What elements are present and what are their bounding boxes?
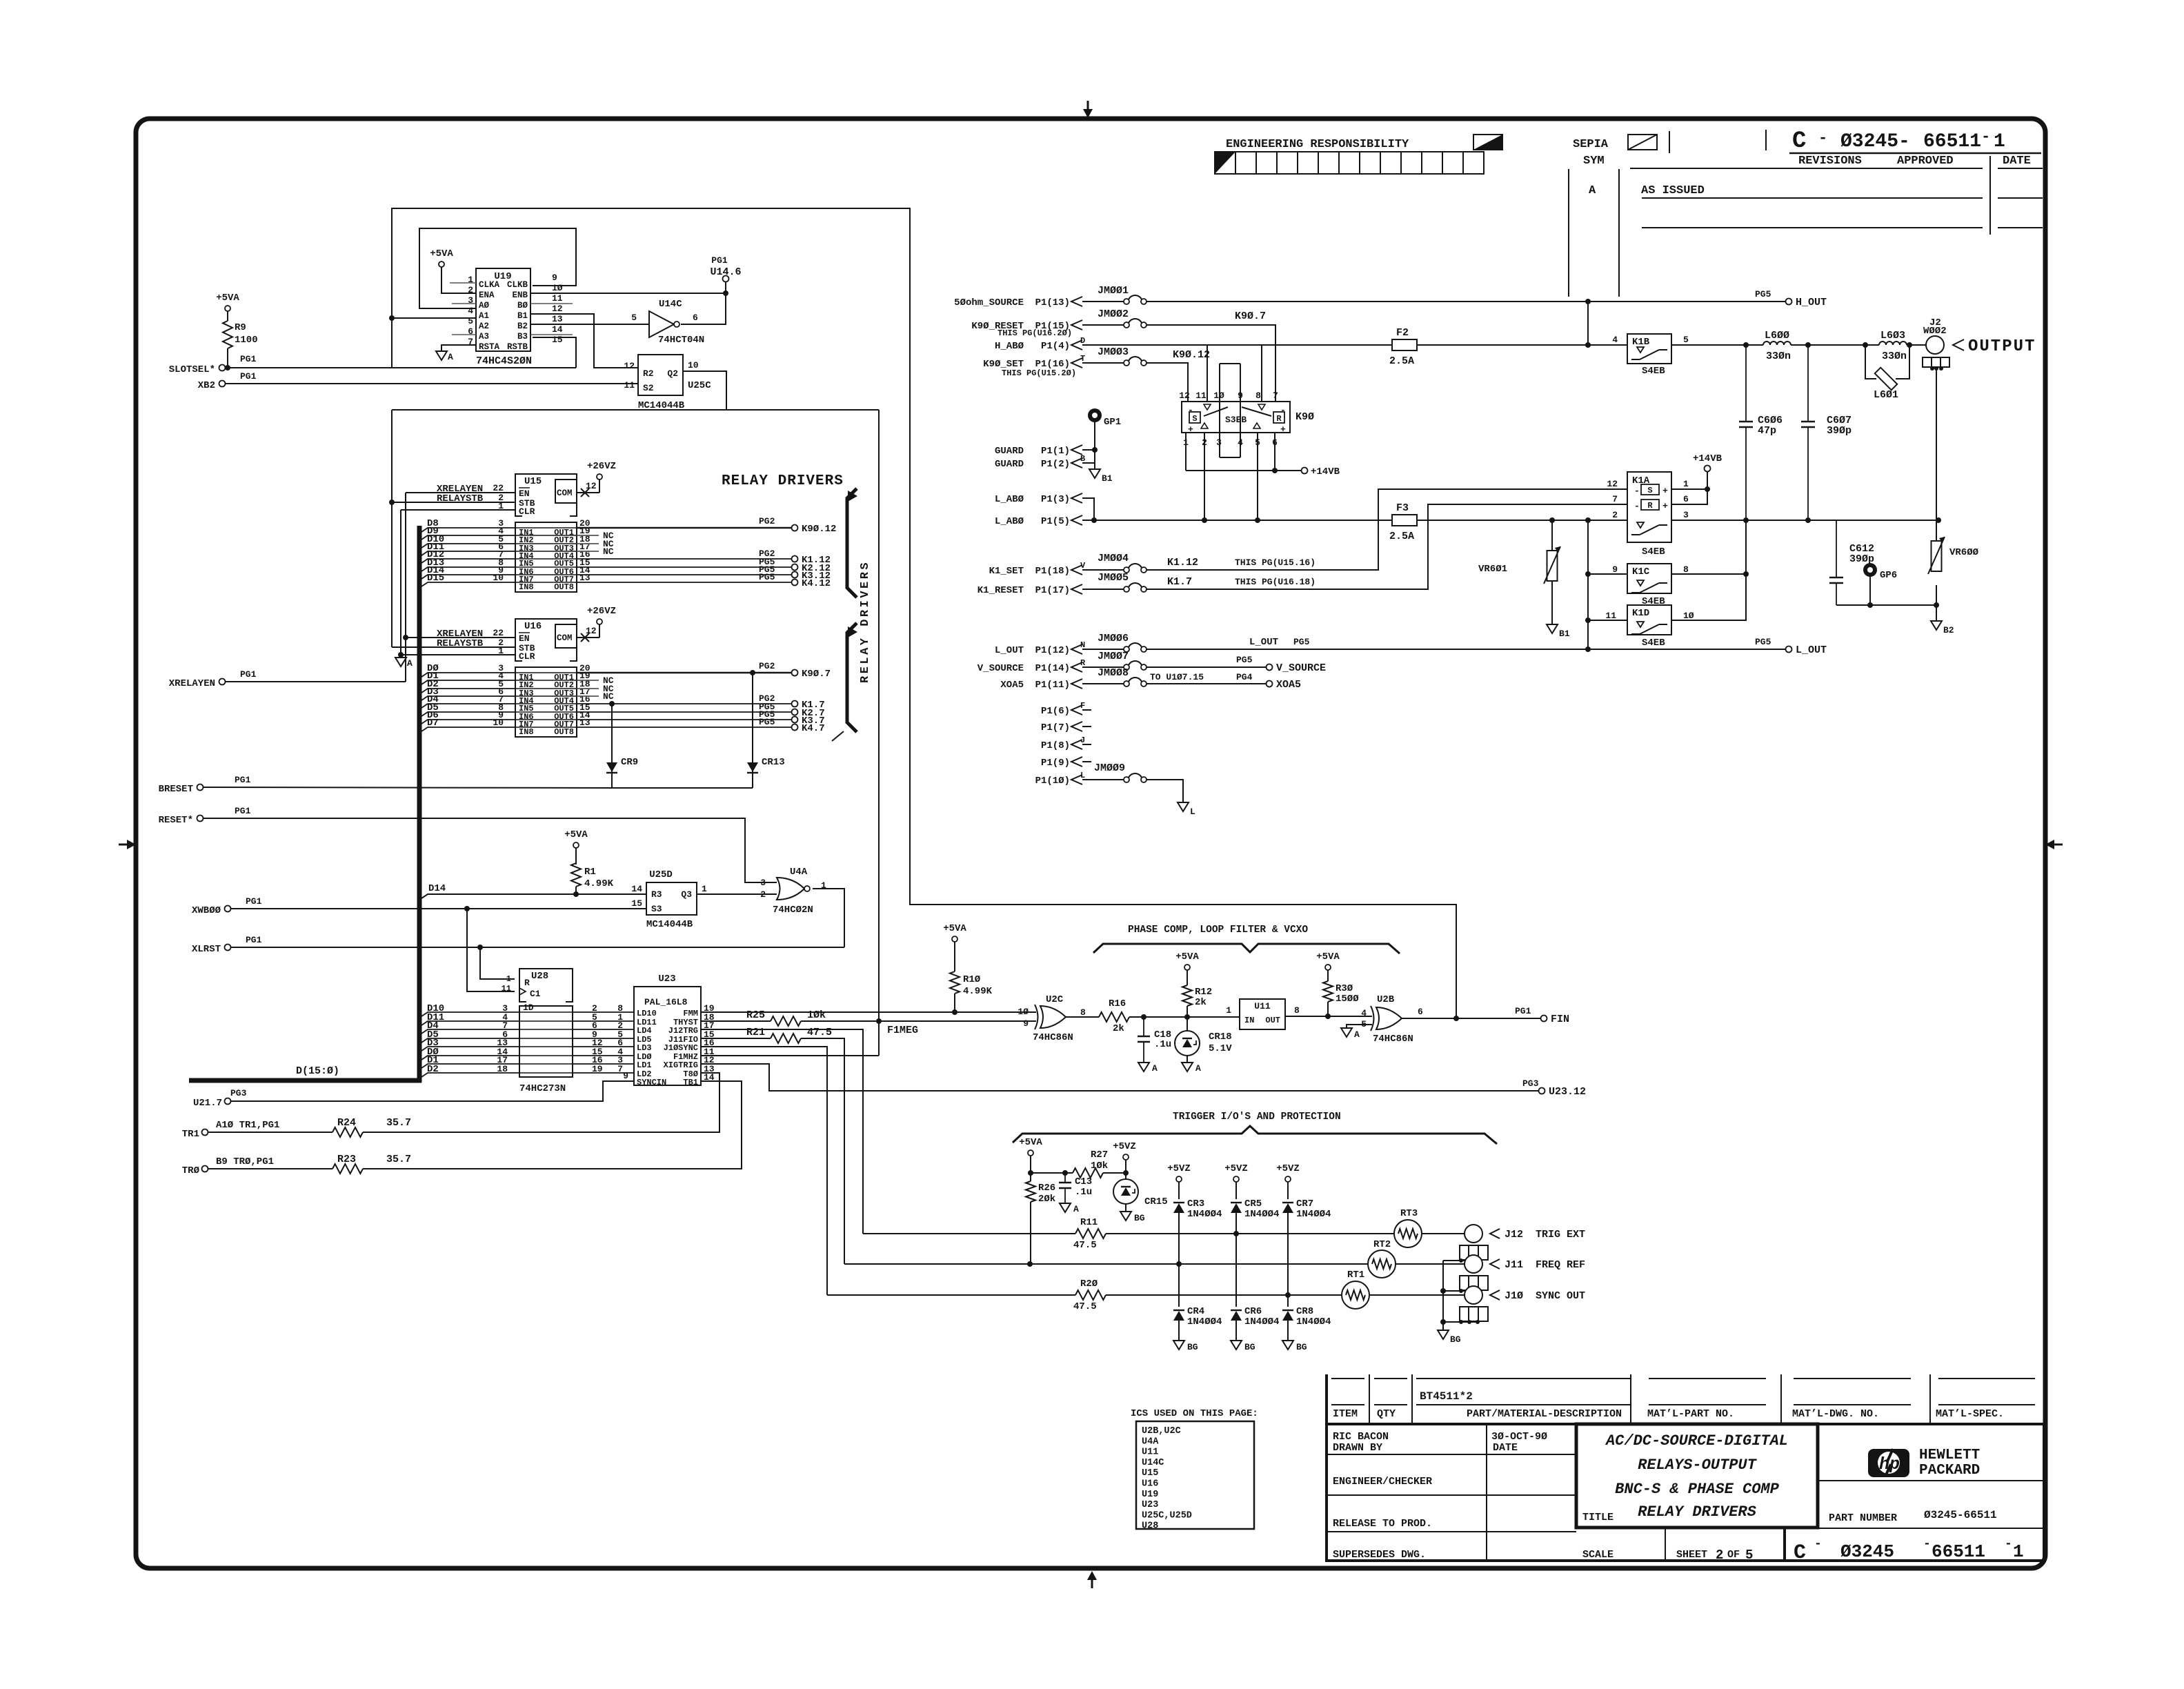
svg-text:CR15: CR15 xyxy=(1144,1196,1168,1207)
ground B1 at VR601 xyxy=(1547,624,1558,633)
wire U16 OUT6 line xyxy=(577,711,792,713)
svg-text:SYM: SYM xyxy=(1583,155,1605,168)
svg-text:R1Ø: R1Ø xyxy=(963,974,981,985)
svg-text:U16: U16 xyxy=(524,621,542,632)
svg-text:PAL_16L8: PAL_16L8 xyxy=(644,997,688,1007)
terminal L_OUT xyxy=(1786,646,1792,653)
svg-text:D(15:Ø): D(15:Ø) xyxy=(296,1065,339,1077)
wire U28 Q1 to U23 LD row xyxy=(573,1020,634,1022)
svg-text:R12: R12 xyxy=(1195,987,1212,998)
svg-text:4.99K: 4.99K xyxy=(584,878,614,889)
svg-text:XRELAYEN: XRELAYEN xyxy=(169,678,215,689)
svg-text:PG3: PG3 xyxy=(230,1088,247,1098)
svg-text:C: C xyxy=(1794,1541,1806,1565)
svg-text:7: 7 xyxy=(1273,391,1278,401)
svg-text:JMØØ5: JMØØ5 xyxy=(1098,572,1129,584)
wire XRELAYEN vertical xyxy=(405,493,406,682)
wire K1D pin10 riser xyxy=(1671,574,1746,620)
ground BG at BNC shields xyxy=(1438,1330,1449,1339)
revisions table SYM column xyxy=(1568,169,1569,297)
svg-text:TR1: TR1 xyxy=(182,1129,199,1140)
ground B2 xyxy=(1936,605,1937,621)
svg-text:66511: 66511 xyxy=(1923,131,1981,152)
terminal FIN PG1 xyxy=(1541,1016,1547,1022)
svg-text:BG: BG xyxy=(1244,1342,1255,1352)
BNC J11 shield xyxy=(1460,1276,1488,1290)
diode CR4 1N4004 xyxy=(1173,1311,1184,1321)
svg-text:QTY: QTY xyxy=(1377,1408,1396,1420)
svg-text:V_SOURCE: V_SOURCE xyxy=(977,663,1024,674)
svg-text:.1u: .1u xyxy=(1154,1039,1171,1050)
svg-text:12: 12 xyxy=(624,361,635,371)
svg-text:ENB: ENB xyxy=(512,290,528,300)
svg-text:V: V xyxy=(1080,561,1086,571)
svg-text:Q3: Q3 xyxy=(681,889,692,900)
svg-text:U19: U19 xyxy=(1142,1490,1158,1500)
svg-text:K9Ø.7: K9Ø.7 xyxy=(1235,310,1266,322)
svg-text:+5VA: +5VA xyxy=(1019,1137,1042,1148)
svg-text:NC: NC xyxy=(603,691,614,702)
ground A at U19 xyxy=(436,351,447,360)
svg-text:+5VA: +5VA xyxy=(1316,951,1340,962)
wire F2 to K1B xyxy=(1417,344,1627,346)
wire GUARD P1(2) xyxy=(1082,462,1095,464)
svg-text:C13: C13 xyxy=(1075,1176,1092,1187)
svg-text:7: 7 xyxy=(617,1064,623,1074)
svg-text:U23.12: U23.12 xyxy=(1549,1086,1586,1098)
svg-text:LD3: LD3 xyxy=(637,1043,652,1053)
svg-text:F1MEG: F1MEG xyxy=(887,1025,918,1036)
terminal RESET* xyxy=(197,816,203,822)
svg-text:BRESET: BRESET xyxy=(159,784,193,795)
svg-text:35.7: 35.7 xyxy=(386,1154,411,1165)
svg-text:L: L xyxy=(1080,771,1085,780)
svg-text:PART/MATERIAL-DESCRIPTION: PART/MATERIAL-DESCRIPTION xyxy=(1467,1408,1622,1420)
svg-text:L_OUT: L_OUT xyxy=(1249,637,1278,648)
wire U19 pin3 stub xyxy=(452,303,476,304)
svg-text:2.5A: 2.5A xyxy=(1389,355,1414,367)
svg-text:JMØØ9: JMØØ9 xyxy=(1094,762,1125,774)
svg-text:12: 12 xyxy=(1179,391,1190,401)
svg-text:GP6: GP6 xyxy=(1880,570,1897,581)
svg-text:MAT’L-PART NO.: MAT’L-PART NO. xyxy=(1647,1408,1734,1420)
inductor L600 330n xyxy=(1763,342,1791,345)
wire U25C.Q2 output xyxy=(683,371,726,410)
wire CR6 to ground xyxy=(1235,1321,1237,1341)
wire A2 stub xyxy=(392,317,476,319)
svg-text:5: 5 xyxy=(1745,1548,1753,1563)
checkbox strip first cell mark xyxy=(1215,152,1235,174)
svg-text:-: - xyxy=(1818,130,1827,147)
svg-text:K9Ø.12: K9Ø.12 xyxy=(1173,349,1210,361)
svg-text:+5VA: +5VA xyxy=(943,923,966,934)
svg-text:CLR: CLR xyxy=(519,651,535,662)
wire U19 pin14 stub xyxy=(530,334,573,335)
IC U28 data box xyxy=(519,1006,573,1077)
wire U16 OUT1 line xyxy=(577,672,792,674)
wire P1(8) stub xyxy=(1082,744,1091,745)
wire H_OUT riser xyxy=(1587,302,1589,345)
wire U16.EN tap xyxy=(406,637,515,638)
wire U16 NC stub OUT2 xyxy=(577,680,599,681)
svg-text:PG5: PG5 xyxy=(759,572,775,582)
svg-text:F2: F2 xyxy=(1396,327,1409,339)
svg-text:A: A xyxy=(1589,184,1596,197)
svg-text:10: 10 xyxy=(493,718,504,728)
revisions approved/date divider xyxy=(1989,156,1991,235)
wire GUARD P1(1) xyxy=(1082,449,1095,451)
svg-text:+: + xyxy=(1188,424,1193,435)
svg-text:B3: B3 xyxy=(517,332,528,342)
svg-text:1: 1 xyxy=(498,646,504,656)
resistor R30 1500 xyxy=(1327,1002,1329,1016)
svg-text:P1(6): P1(6) xyxy=(1041,706,1070,717)
svg-text:1N4ØØ4: 1N4ØØ4 xyxy=(1244,1209,1279,1220)
svg-text:2.5A: 2.5A xyxy=(1389,531,1414,542)
svg-text:1: 1 xyxy=(2013,1541,2024,1562)
svg-text:A1: A1 xyxy=(479,311,489,321)
svg-text:RSTB: RSTB xyxy=(507,342,528,352)
svg-text:TRIG EXT: TRIG EXT xyxy=(1536,1229,1585,1241)
wire U21.7 to U23.SYNCIN xyxy=(230,1081,634,1101)
svg-text:B1: B1 xyxy=(517,311,528,321)
svg-text:FMM: FMM xyxy=(683,1009,698,1018)
svg-text:9: 9 xyxy=(1612,564,1618,575)
wire trigger row2 FREQ REF xyxy=(844,1263,1368,1265)
svg-text:U28: U28 xyxy=(531,971,548,982)
svg-text:9: 9 xyxy=(1217,155,1222,164)
svg-text:1Ø: 1Ø xyxy=(552,283,563,293)
wire outer routing loop A2 net xyxy=(392,208,1456,1018)
wire U28 Q0 to U23 LD row xyxy=(573,1011,634,1013)
varistor VR600 xyxy=(1936,520,1937,541)
wire XB2 to U25C.S2 xyxy=(225,383,638,384)
svg-text:K4.12: K4.12 xyxy=(802,578,831,589)
wire RT3 to J12 xyxy=(1422,1233,1465,1234)
svg-text:1N4ØØ4: 1N4ØØ4 xyxy=(1296,1209,1331,1220)
svg-text:K1B: K1B xyxy=(1632,337,1650,348)
svg-text:D14: D14 xyxy=(428,883,446,894)
wire P1(9) stub xyxy=(1082,761,1091,762)
svg-text:B1: B1 xyxy=(1559,629,1570,639)
svg-text:5: 5 xyxy=(468,316,473,326)
svg-text:1Ø: 1Ø xyxy=(1683,611,1694,621)
svg-text:A: A xyxy=(407,658,413,669)
svg-text:U11: U11 xyxy=(1254,1001,1271,1011)
svg-text:AØ: AØ xyxy=(479,301,490,310)
bottom center registration arrow xyxy=(1091,1579,1093,1588)
svg-text:PG1: PG1 xyxy=(235,806,251,816)
wire CR4 to ground xyxy=(1178,1321,1180,1341)
svg-text:66511: 66511 xyxy=(1932,1541,1985,1562)
resistor R12 2k xyxy=(1187,970,1188,985)
net arrow OUTPUT xyxy=(1953,339,1964,350)
wire K90 pin6 to +14VB xyxy=(1274,433,1275,471)
wire L_AB0 P1(3) xyxy=(1082,498,1094,520)
wire U28 Q7 to U23 LD row xyxy=(573,1072,634,1074)
wire SLOTSEL* line xyxy=(225,367,576,368)
svg-text:4: 4 xyxy=(468,306,473,316)
IC U28 74HC273N control box xyxy=(519,969,573,1002)
svg-text:U25C: U25C xyxy=(688,380,711,391)
wire K1C pin8 riser xyxy=(1671,520,1746,574)
svg-text:U4A: U4A xyxy=(1142,1436,1159,1447)
wire K90 pin1 to +14VB xyxy=(1185,433,1187,471)
svg-text:U16: U16 xyxy=(1142,1479,1158,1490)
svg-text:K1.7: K1.7 xyxy=(1167,576,1192,588)
svg-text:H_ABØ: H_ABØ xyxy=(995,341,1024,352)
svg-text:B1: B1 xyxy=(1102,473,1113,484)
svg-text:U23: U23 xyxy=(658,974,675,985)
wire U28 Q3 to U23 LD row xyxy=(573,1038,634,1039)
svg-text:12: 12 xyxy=(1607,479,1618,489)
svg-text:ITEM: ITEM xyxy=(1333,1408,1358,1420)
wire CR3 to row xyxy=(1178,1213,1180,1307)
wire JM005 to K1A pin7 xyxy=(1146,504,1627,589)
svg-text:R2: R2 xyxy=(643,368,654,379)
terminal XB2 xyxy=(219,381,226,387)
wire F3 to K1A pin2 xyxy=(1417,520,1627,521)
section brace phase comp xyxy=(1093,944,1400,954)
svg-text:L_OUT: L_OUT xyxy=(995,645,1024,656)
svg-text:ENA: ENA xyxy=(479,290,495,300)
svg-text:-: - xyxy=(1280,405,1286,415)
wire U19.RSTA to ground xyxy=(441,345,476,351)
svg-text:P1(12): P1(12) xyxy=(1035,645,1070,656)
wire U16 NC stub OUT3 xyxy=(577,688,599,689)
svg-text:1Øk: 1Øk xyxy=(1091,1160,1108,1172)
svg-text:U23: U23 xyxy=(1142,1500,1158,1510)
svg-text:Ø3245: Ø3245 xyxy=(1840,1541,1894,1562)
svg-text:.1u: .1u xyxy=(1075,1187,1092,1198)
svg-text:S4EB: S4EB xyxy=(1642,638,1665,649)
svg-text:BNC-S & PHASE COMP: BNC-S & PHASE COMP xyxy=(1615,1481,1779,1498)
svg-text:DRAWN BY: DRAWN BY xyxy=(1333,1442,1382,1454)
zener CR15 xyxy=(1125,1160,1126,1173)
svg-text:XLRST: XLRST xyxy=(192,944,221,955)
svg-text:P1(13): P1(13) xyxy=(1035,297,1070,308)
svg-text:12: 12 xyxy=(552,304,563,314)
section brace trigger xyxy=(1013,1126,1497,1144)
svg-text:4.99K: 4.99K xyxy=(963,986,993,997)
ground A at CLR xyxy=(395,658,406,666)
diode CR7 1N4004 xyxy=(1287,1182,1289,1199)
bracket tail xyxy=(832,731,844,741)
svg-text:Q2: Q2 xyxy=(667,368,678,379)
strip divider xyxy=(1669,131,1670,153)
sepia flag symbol xyxy=(1628,135,1657,150)
wire U15 OUT1 line xyxy=(577,527,792,529)
svg-text:GP1: GP1 xyxy=(1104,417,1121,428)
wire JM001 to H_OUT node xyxy=(1146,301,1588,302)
svg-text:1D: 1D xyxy=(523,1002,534,1013)
svg-text:10: 10 xyxy=(493,573,504,583)
svg-text:P1(9): P1(9) xyxy=(1041,758,1070,769)
wire U25D.Q3 to U4A.2 xyxy=(697,893,770,895)
wire CR9-CR13 rail xyxy=(612,787,753,789)
resistor R20 47.5 row3 xyxy=(1075,1290,1106,1300)
ground L xyxy=(1178,802,1189,811)
relay K1C S4EB xyxy=(1627,564,1671,593)
wire U15.STB tap xyxy=(392,502,515,503)
relay K90 contacts xyxy=(1204,407,1228,416)
svg-text:JMØØ4: JMØØ4 xyxy=(1098,553,1129,564)
wire J10 shield to ground bus xyxy=(1443,1321,1478,1323)
svg-text:JMØØ2: JMØØ2 xyxy=(1098,308,1129,320)
svg-text:-: - xyxy=(1814,1537,1822,1551)
thermistor RT3 xyxy=(1394,1220,1422,1247)
wire U28 Q4 to U23 LD row xyxy=(573,1046,634,1047)
svg-text:8: 8 xyxy=(1683,564,1689,575)
svg-text:-: - xyxy=(1634,501,1640,511)
wire U4A output to XLRST net xyxy=(813,889,844,947)
power +5VZ for CR7 xyxy=(1285,1176,1291,1182)
wire K1A pin1/6 to +14VB xyxy=(1671,488,1707,490)
wire U23.17 J12TRG down to trigger row1 xyxy=(701,1029,863,1234)
svg-text:P1(7): P1(7) xyxy=(1041,722,1070,733)
svg-text:74HC273N: 74HC273N xyxy=(519,1083,566,1094)
svg-text:RT3: RT3 xyxy=(1400,1208,1418,1219)
wire R27 node rail xyxy=(1031,1172,1073,1174)
wire XLRST branch to U28.R xyxy=(480,947,515,979)
svg-text:MAT’L-SPEC.: MAT’L-SPEC. xyxy=(1936,1408,2004,1420)
power +26VZ at U15 xyxy=(597,474,602,480)
svg-text:XOA5: XOA5 xyxy=(1276,679,1301,691)
wire CR5 to row xyxy=(1235,1213,1237,1307)
svg-text:J11: J11 xyxy=(1505,1259,1523,1271)
resistor R26 20k xyxy=(1030,1173,1031,1181)
svg-text:1: 1 xyxy=(821,880,826,891)
svg-text:P1(4): P1(4) xyxy=(1041,341,1070,352)
wire U16 OUT7 line xyxy=(577,719,792,720)
svg-text:S4EB: S4EB xyxy=(1642,366,1665,377)
svg-text:PG3: PG3 xyxy=(1522,1078,1539,1089)
resistor R10 4.99K xyxy=(954,994,955,1012)
svg-text:3Ø-OCT-9Ø: 3Ø-OCT-9Ø xyxy=(1491,1431,1547,1443)
svg-text:U2B: U2B xyxy=(1377,994,1395,1005)
svg-text:1: 1 xyxy=(1226,1005,1231,1016)
svg-text:RESET*: RESET* xyxy=(159,815,193,826)
svg-text:FIN: FIN xyxy=(1551,1014,1569,1025)
svg-text:Ø3245-66511: Ø3245-66511 xyxy=(1924,1509,1997,1521)
svg-text:JMØØ7: JMØØ7 xyxy=(1098,651,1129,662)
svg-text:FREQ REF: FREQ REF xyxy=(1536,1259,1585,1271)
svg-text:S3: S3 xyxy=(651,904,662,914)
relay K90 actuator arrows xyxy=(1204,404,1211,410)
inverter U14C 74HCT04N xyxy=(649,311,674,337)
terminal XLRST xyxy=(225,945,231,951)
wire J12 shield to ground bus xyxy=(1443,1260,1478,1261)
svg-text:CLKB: CLKB xyxy=(507,280,528,290)
svg-text:1: 1 xyxy=(702,884,707,894)
svg-text:2: 2 xyxy=(1716,1548,1723,1563)
svg-text:IN8: IN8 xyxy=(519,727,534,737)
svg-text:ENGINEER/CHECKER: ENGINEER/CHECKER xyxy=(1333,1476,1432,1488)
svg-text:U2C: U2C xyxy=(1046,994,1064,1005)
svg-text:15: 15 xyxy=(552,335,563,345)
wire U15 OUT5 line xyxy=(577,558,792,560)
svg-text:U14C: U14C xyxy=(1142,1458,1164,1468)
svg-text:S: S xyxy=(1647,486,1652,495)
svg-text:R21: R21 xyxy=(746,1027,765,1038)
diode CR8 1N4004 xyxy=(1282,1311,1293,1321)
diode CR13 xyxy=(750,670,755,675)
svg-text:+: + xyxy=(1662,501,1668,511)
svg-text:P1(18): P1(18) xyxy=(1035,566,1070,577)
inductor L603 330n xyxy=(1879,342,1907,345)
wire U2C out via R16 xyxy=(1066,1016,1099,1018)
wire TR0 via R23 to U23.14 xyxy=(208,1168,332,1169)
svg-text:JMØØ8: JMØØ8 xyxy=(1098,667,1129,679)
wire U16 OUT8 line xyxy=(577,727,792,728)
engineering responsibility flag symbol xyxy=(1473,135,1502,150)
wire U23.18 THYST via R25 to U2C.9 xyxy=(701,1020,771,1022)
svg-text:R3: R3 xyxy=(651,889,662,900)
terminal U21.7 PG3 xyxy=(225,1098,231,1105)
svg-text:RIC BACON: RIC BACON xyxy=(1333,1431,1389,1443)
terminal H_OUT xyxy=(1588,301,1786,302)
svg-text:AS ISSUED: AS ISSUED xyxy=(1641,184,1705,197)
svg-text:74HCT04N: 74HCT04N xyxy=(658,335,704,346)
svg-text:11: 11 xyxy=(1605,611,1616,621)
svg-text:PHASE COMP, LOOP FILTER & VCXO: PHASE COMP, LOOP FILTER & VCXO xyxy=(1128,925,1308,936)
svg-text:14: 14 xyxy=(552,324,563,335)
svg-text:74HC4S2ØN: 74HC4S2ØN xyxy=(476,355,532,367)
svg-text:ENGINEERING RESPONSIBILITY: ENGINEERING RESPONSIBILITY xyxy=(1226,138,1409,151)
svg-text:BG: BG xyxy=(1134,1213,1145,1223)
svg-text:74HC86N: 74HC86N xyxy=(1033,1032,1073,1043)
svg-text:+5VA: +5VA xyxy=(564,829,588,840)
svg-text:K9Ø.12: K9Ø.12 xyxy=(802,524,836,535)
wire K90 pin2 to L rail xyxy=(1204,433,1205,520)
wire switched-L vertical xyxy=(1587,520,1589,649)
svg-text:U15: U15 xyxy=(1142,1468,1158,1479)
svg-text:THIS PG(U15.2Ø): THIS PG(U15.2Ø) xyxy=(1002,368,1076,378)
svg-text:+14VB: +14VB xyxy=(1311,466,1340,477)
svg-text:U21.7: U21.7 xyxy=(193,1098,222,1109)
wire U23.12 XIGTRIG to PG3 terminal xyxy=(701,1064,1539,1091)
wire RT1 to J10 xyxy=(1369,1294,1465,1296)
IC U16 IN/OUT box xyxy=(515,667,577,737)
terminal BRESET xyxy=(197,784,203,791)
svg-text:CR6: CR6 xyxy=(1244,1306,1262,1317)
svg-text:47.5: 47.5 xyxy=(807,1027,832,1038)
svg-text:A: A xyxy=(1073,1204,1079,1214)
wire U15.CLR tap xyxy=(401,509,515,511)
svg-text:S3EB: S3EB xyxy=(1225,415,1247,425)
svg-text:-: - xyxy=(1634,486,1640,496)
svg-text:RELAY DRIVERS: RELAY DRIVERS xyxy=(1638,1503,1756,1521)
svg-text:S2: S2 xyxy=(643,383,654,393)
title block center divider xyxy=(1486,1424,1487,1561)
svg-text:47.5: 47.5 xyxy=(1073,1240,1097,1251)
svg-text:5: 5 xyxy=(631,313,637,323)
svg-text:5.1V: 5.1V xyxy=(1209,1043,1232,1054)
svg-text:AC/DC-SOURCE-DIGITAL: AC/DC-SOURCE-DIGITAL xyxy=(1605,1432,1788,1450)
svg-text:PG1: PG1 xyxy=(246,896,262,907)
terminal U23.12 PG3 xyxy=(1539,1088,1545,1094)
svg-text:13: 13 xyxy=(552,314,563,324)
svg-text:THIS PG(U16.2Ø): THIS PG(U16.2Ø) xyxy=(997,328,1072,338)
svg-text:R2Ø: R2Ø xyxy=(1080,1278,1098,1290)
wire +14VB rail at K90 xyxy=(1186,470,1301,471)
power +5VA for R12 xyxy=(1184,965,1190,970)
svg-text:DATE: DATE xyxy=(2003,155,2031,168)
thermistor RT2 xyxy=(1368,1250,1396,1278)
svg-text:11: 11 xyxy=(624,380,635,391)
wire U16.STB tap xyxy=(392,646,515,648)
wire +5VA to R26/R27 node xyxy=(1030,1156,1031,1173)
